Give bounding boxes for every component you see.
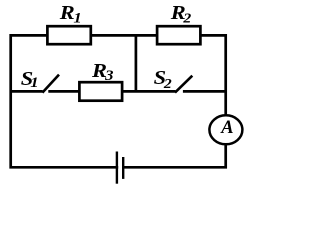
ammeter A1 body — [209, 115, 242, 144]
battery short plate (negative) — [122, 157, 124, 179]
resistor R2 — [157, 26, 200, 44]
svg-text:S1: S1 — [21, 67, 39, 91]
resistor R1 — [47, 26, 90, 44]
battery long plate (positive) — [116, 152, 118, 184]
switch S2 gap — [175, 89, 183, 94]
svg-text:R3: R3 — [91, 59, 114, 83]
wire center stub between R1 and R2 down to middle branch — [135, 35, 138, 91]
svg-text:S2: S2 — [154, 66, 173, 91]
svg-text:A: A — [220, 118, 233, 138]
resistor R3 — [79, 82, 122, 101]
battery cell gap — [118, 165, 122, 170]
wire outer loop (left, top, right, bottom buses) — [11, 35, 226, 167]
wire middle branch (node B to node C) — [11, 90, 226, 93]
svg-text:R1: R1 — [59, 1, 82, 26]
svg-text:R2: R2 — [170, 1, 192, 26]
switch S1 gap — [43, 89, 49, 94]
switch S2 blade — [175, 76, 192, 93]
switch S1 blade — [42, 75, 59, 93]
